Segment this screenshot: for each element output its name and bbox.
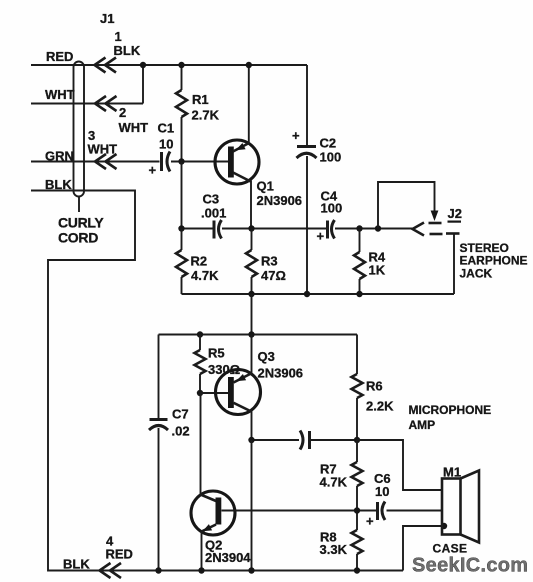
node WHT label <box>45 87 75 102</box>
svg-text:2N3906: 2N3906 <box>258 366 304 381</box>
svg-text:Q1: Q1 <box>257 179 274 194</box>
pin 3 plug chevrons <box>95 154 117 169</box>
svg-text:MICROPHONE: MICROPHONE <box>409 403 492 417</box>
capacitor C1 <box>149 121 229 178</box>
svg-text:+: + <box>149 163 157 178</box>
svg-text:RED: RED <box>46 49 73 64</box>
svg-text:1K: 1K <box>369 263 386 278</box>
svg-text:2.2K: 2.2K <box>366 399 394 414</box>
ground rail junction dots <box>248 291 362 297</box>
jack J2 contacts <box>413 223 460 295</box>
svg-text:BLK: BLK <box>63 557 90 572</box>
node BLK bottom label <box>63 557 90 572</box>
speaker M1 <box>442 465 479 543</box>
svg-text:3.3K: 3.3K <box>320 542 348 557</box>
svg-text:C1: C1 <box>158 121 175 136</box>
svg-text:R2: R2 <box>191 254 208 269</box>
wire link Q3 collector column down <box>251 440 253 571</box>
node BLK label <box>45 177 72 192</box>
wire coupling line <box>252 439 404 441</box>
pin 4 plug chevrons <box>100 563 122 578</box>
pin 1 plug chevrons <box>95 58 117 73</box>
resistor R8 <box>320 511 363 571</box>
microphone amp label <box>409 403 492 432</box>
resistor R7 <box>320 440 363 511</box>
svg-text:CURLY: CURLY <box>58 215 104 231</box>
svg-text:47Ω: 47Ω <box>261 268 286 283</box>
curly cord label <box>58 215 104 246</box>
svg-text:2N3906: 2N3906 <box>257 193 303 208</box>
wire J2 tip loop with arrow <box>378 182 438 229</box>
svg-text:C7: C7 <box>172 407 189 422</box>
svg-text:EARPHONE: EARPHONE <box>460 254 528 268</box>
top rail junction dots <box>140 62 252 68</box>
resistor R1 <box>176 65 220 162</box>
curly cord capsule <box>74 62 85 213</box>
connector J1 label <box>100 11 114 26</box>
wire WHT (pin 2) <box>31 65 143 104</box>
svg-text:J1: J1 <box>100 11 114 26</box>
svg-text:WHT: WHT <box>88 142 118 157</box>
svg-text:C3: C3 <box>203 192 220 207</box>
svg-text:CORD: CORD <box>58 230 98 246</box>
svg-text:4.7K: 4.7K <box>320 475 348 490</box>
svg-text:+: + <box>366 514 374 529</box>
svg-text:C2: C2 <box>320 136 337 151</box>
coupling line junction dots <box>248 437 360 443</box>
svg-text:R3: R3 <box>261 254 278 269</box>
bottom rail junction dots <box>155 567 360 573</box>
capacitor C7 <box>149 335 190 571</box>
wire M1 top feed <box>357 440 442 490</box>
wire GRN (pin 3) <box>31 161 160 163</box>
resistor R6 <box>352 335 395 441</box>
capacitor C2 <box>292 65 341 294</box>
svg-text:WHT: WHT <box>45 87 75 102</box>
wire BLK (pin 4 return, left drop) <box>31 191 403 571</box>
wire link top section to mic amp rail <box>251 294 253 335</box>
svg-text:.02: .02 <box>172 424 190 439</box>
mid line junction dots <box>178 225 381 231</box>
svg-text:10: 10 <box>375 484 389 499</box>
pin 2 label <box>119 105 149 135</box>
svg-text:Q3: Q3 <box>258 349 275 364</box>
transistor Q2 2N3904 <box>191 393 251 571</box>
svg-text:R1: R1 <box>192 92 209 107</box>
svg-text:J2: J2 <box>448 206 462 221</box>
svg-text:1: 1 <box>115 29 122 44</box>
wire Q2 base line <box>222 510 443 512</box>
capacitor C6 <box>366 471 391 529</box>
svg-text:CASE: CASE <box>433 542 468 556</box>
svg-text:4.7K: 4.7K <box>191 268 219 283</box>
wire ground rail of top section <box>182 293 455 295</box>
wire RED (pin 1) <box>31 64 307 66</box>
svg-text:AMP: AMP <box>409 418 436 432</box>
watermark <box>412 555 528 577</box>
pin 4 label <box>106 534 133 562</box>
wire mid line (C3/C4 row) <box>182 228 413 230</box>
svg-text:JACK: JACK <box>460 267 493 281</box>
resistor R4 <box>354 229 386 295</box>
node RED label <box>46 49 73 64</box>
pin 3 label <box>88 128 118 157</box>
capacitor coupling (Q3 collector) <box>300 431 310 450</box>
svg-text:M1: M1 <box>443 465 461 480</box>
node GRN label <box>45 149 74 164</box>
resistor R2 <box>176 229 219 295</box>
transistor Q3 2N3906 <box>216 335 304 441</box>
svg-text:RED: RED <box>106 547 133 562</box>
svg-text:.001: .001 <box>201 206 226 221</box>
svg-text:+: + <box>292 128 300 143</box>
svg-text:2: 2 <box>119 105 126 120</box>
transistor Q1 2N3906 <box>215 65 302 229</box>
node R7/R8/C6 junction dot <box>354 507 360 513</box>
svg-text:BLK: BLK <box>114 43 141 58</box>
resistor R3 <box>246 229 286 295</box>
svg-text:R6: R6 <box>366 379 383 394</box>
jack J2 label <box>448 206 462 223</box>
case label <box>433 542 468 556</box>
pin 2 plug chevrons <box>95 96 117 111</box>
wire vertical R1/R2/C3 column <box>181 162 183 229</box>
svg-text:100: 100 <box>320 150 342 165</box>
svg-text:R5: R5 <box>208 346 225 361</box>
svg-text:2N3904: 2N3904 <box>205 550 251 565</box>
capacitor C3 <box>201 192 226 239</box>
node base Q1 junction dot <box>178 158 184 164</box>
svg-text:SeekIC.com: SeekIC.com <box>412 555 528 577</box>
mic amp rail junction dots <box>197 331 255 337</box>
svg-text:100: 100 <box>321 201 343 216</box>
stereo earphone jack label <box>460 241 528 281</box>
wire case return <box>403 523 447 571</box>
node Q3 base junction dot <box>197 390 203 396</box>
capacitor C4 <box>317 189 343 244</box>
pin 1 label <box>114 29 141 58</box>
svg-text:10: 10 <box>159 137 173 152</box>
svg-text:WHT: WHT <box>119 120 149 135</box>
wire Q3 base line <box>200 392 228 394</box>
wire mic amp top rail <box>159 334 358 336</box>
svg-text:+: + <box>317 229 325 244</box>
svg-text:2.7K: 2.7K <box>192 108 220 123</box>
resistor R5 <box>195 335 241 394</box>
